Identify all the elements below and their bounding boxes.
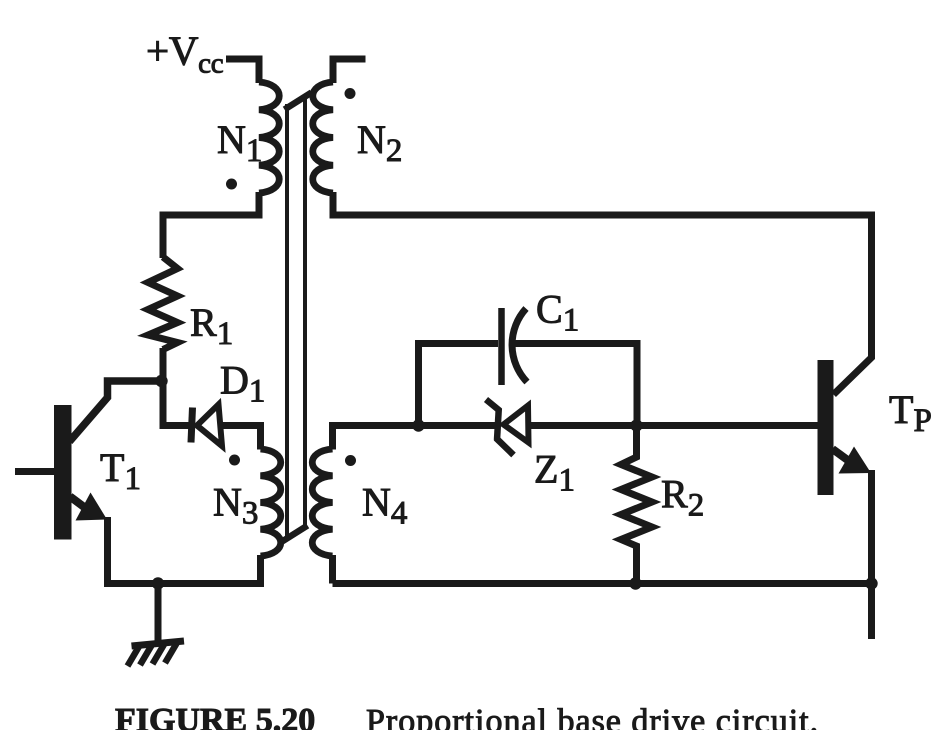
zener Z1 top wing: [486, 400, 500, 412]
zener Z1 bottom wing: [496, 438, 514, 455]
TP emitter arrow: [839, 447, 872, 474]
wire Z1 to TP base: [529, 422, 819, 429]
ground bar: [132, 641, 185, 646]
wire C1 right branch: [514, 344, 637, 426]
svg-text:R2: R2: [661, 472, 704, 524]
node ground junction: [152, 577, 164, 589]
T1 base lead: [15, 468, 56, 475]
diode D1 cathode bar: [191, 408, 193, 443]
resistor R1: [148, 257, 178, 350]
svg-text:R1: R1: [190, 300, 233, 352]
svg-text:N2: N2: [357, 117, 402, 169]
wire N1 bottom to R1 top: [163, 192, 259, 258]
capacitor C1 flat plate: [498, 308, 505, 385]
TP emitter riser to bottom: [868, 470, 875, 639]
transformer winding N2: [313, 82, 333, 193]
svg-text:Proportional base drive circui: Proportional base drive circuit.: [366, 703, 819, 730]
bottom rail N4 to TP emitter: [333, 580, 872, 587]
wire Vcc to N1 top: [226, 59, 259, 83]
ground stem: [155, 584, 162, 645]
wire N2 bottom to TP collector: [333, 192, 872, 395]
svg-text:D1: D1: [220, 358, 265, 410]
transformer winding N1: [259, 82, 279, 193]
N4 top stub and wire to Z1: [333, 426, 497, 450]
transistor TP base bar: [818, 360, 834, 495]
svg-text:C1: C1: [536, 287, 579, 339]
transformer core: [285, 104, 289, 537]
node C1 left branch: [412, 419, 424, 431]
node TP emitter junction: [865, 577, 877, 589]
N3 phasing dot: [229, 455, 240, 466]
transformer winding N3: [261, 449, 281, 556]
node R2 bottom: [629, 577, 641, 589]
svg-text:FIGURE 5.20: FIGURE 5.20: [115, 702, 315, 730]
zener Z1 cathode bar: [497, 409, 499, 441]
TP emitter lead: [833, 449, 852, 463]
svg-text:N4: N4: [362, 480, 407, 532]
wire T1 collector: [70, 381, 164, 442]
N2 top stub: [333, 59, 366, 83]
zener Z1 triangle: [504, 406, 529, 443]
svg-text:N3: N3: [213, 480, 258, 532]
T1 emitter arrow: [76, 493, 108, 521]
wire N3 bottom / bottom-left rail / T1 emitter riser: [108, 517, 261, 584]
wire R1 bottom to node: [160, 348, 167, 381]
N4 phasing dot: [345, 455, 356, 466]
svg-text:+Vcc: +Vcc: [146, 28, 223, 80]
node junction R1 / T1 collector / D1: [155, 375, 167, 387]
wire node to D1: [163, 379, 189, 426]
wire D1 to N3 top: [221, 426, 261, 450]
transformer winding N4: [312, 449, 332, 556]
diode D1 triangle: [197, 405, 222, 447]
T1 emitter lead: [70, 497, 88, 511]
wire C1 left branch: [419, 344, 499, 428]
N1 phasing dot: [226, 179, 237, 190]
N2 phasing dot: [345, 88, 356, 99]
resistor R2: [621, 426, 652, 584]
ground hatch teeth: [128, 647, 140, 667]
transistor T1 base bar: [54, 405, 72, 540]
node R2 top: [630, 419, 642, 431]
wire N4 bottom to bottom rail: [329, 555, 336, 584]
svg-text:T1: T1: [100, 445, 141, 497]
svg-text:Z1: Z1: [534, 447, 575, 499]
svg-text:N1: N1: [217, 117, 262, 169]
svg-text:TP: TP: [889, 387, 932, 439]
capacitor C1 curved plate: [512, 309, 527, 383]
